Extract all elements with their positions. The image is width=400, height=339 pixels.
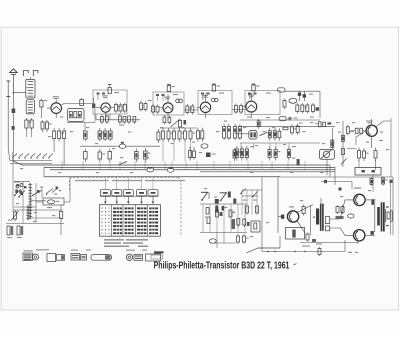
wire bbox=[240, 142, 320, 144]
wire bbox=[12, 93, 14, 152]
transistor T8 output bbox=[354, 194, 365, 205]
coil table arrows bbox=[104, 196, 106, 203]
wire collector T7 bbox=[298, 205, 313, 213]
connector K6 Zusatz label bbox=[126, 250, 135, 251]
parts right edge of IF bbox=[312, 103, 314, 105]
driver transformer winding bar bbox=[316, 209, 319, 225]
label T5 bbox=[248, 95, 254, 96]
wire bbox=[13, 92, 25, 94]
AF coupling vertical bbox=[331, 128, 333, 149]
resistor R2 bbox=[81, 98, 83, 100]
resistor R1 bbox=[40, 99, 42, 101]
driver secondary taps bbox=[325, 217, 329, 224]
transistor T5 IF amp bbox=[246, 101, 257, 112]
table caption line 3 bbox=[104, 246, 129, 247]
bandfilter label blob bbox=[278, 88, 286, 92]
label T4 bbox=[202, 95, 208, 96]
legend tag above title bbox=[154, 251, 164, 253]
coil table header rail bbox=[100, 196, 159, 198]
blob bottom right bbox=[371, 231, 374, 235]
electrolytic pair 2 bbox=[17, 226, 20, 235]
line IF mid bbox=[160, 127, 197, 129]
electrolytic pair 1 bbox=[7, 226, 10, 235]
preamp row wires bbox=[347, 148, 356, 150]
driver net lower wires bbox=[216, 233, 218, 249]
neutralising cap pair bbox=[176, 99, 180, 103]
collector feed wire bbox=[321, 181, 352, 183]
T1 filter can bbox=[68, 109, 85, 122]
IF decoupling parts bbox=[189, 147, 191, 151]
wire bbox=[96, 107, 101, 109]
bottom rail output bbox=[262, 251, 345, 253]
AGC line bbox=[240, 119, 320, 121]
svg-text:Philips-Philetta-Transistor B3: Philips-Philetta-Transistor B3D 22 T, 19… bbox=[154, 260, 290, 271]
lower resistor group A bbox=[236, 146, 238, 149]
connector K5 labels bbox=[86, 250, 91, 251]
trimmer C3 bbox=[12, 126, 15, 130]
loudspeaker bbox=[385, 209, 387, 223]
detector diode D1 bbox=[298, 93, 301, 96]
ferrite antenna coil L2 bbox=[26, 100, 34, 114]
elco box under T7 bbox=[286, 228, 305, 240]
connector K1 label bbox=[24, 250, 33, 251]
connector K2 label bbox=[36, 249, 49, 250]
switch diagonal on AF line bbox=[235, 133, 249, 135]
parts below IF can S1 bbox=[163, 115, 165, 117]
wire bbox=[47, 107, 51, 109]
tone line right bbox=[342, 121, 344, 167]
detector oval bbox=[289, 98, 297, 103]
label T1 bbox=[53, 96, 60, 97]
right vertical wires bbox=[390, 118, 392, 177]
wire emitter T7 bbox=[297, 221, 305, 233]
resistor row 2 bbox=[84, 149, 86, 152]
wire bbox=[95, 114, 97, 120]
resistor pair below S2 left bbox=[197, 128, 199, 131]
resistor row mixer left bbox=[84, 131, 88, 139]
right bus verticals bbox=[329, 165, 331, 177]
verticals from bus bbox=[61, 161, 63, 170]
IF can filter S2 bbox=[198, 91, 232, 115]
padder box bbox=[43, 198, 64, 205]
wire bbox=[240, 126, 335, 128]
resistor below bbox=[234, 148, 236, 150]
diode blob bbox=[92, 104, 95, 108]
transistor T4 IF amp bbox=[200, 102, 210, 112]
bias oval 2 bbox=[348, 214, 354, 218]
coil table riser wires bbox=[104, 178, 106, 190]
bus oval tag 1 bbox=[147, 167, 154, 172]
right edge wires bbox=[390, 183, 392, 235]
resistor R4 bbox=[167, 86, 170, 92]
speaker stubs bbox=[386, 206, 389, 207]
switch contacts osc right bbox=[47, 189, 54, 194]
connector K6 round plug bbox=[126, 254, 132, 260]
diode dark blob bbox=[206, 153, 211, 158]
detector RC parts bbox=[284, 99, 286, 101]
drop wires mid right bbox=[240, 143, 242, 149]
bus oval label 2 bbox=[201, 144, 208, 148]
lower resistor group B bbox=[269, 147, 271, 150]
switch contacts osc mid bbox=[33, 191, 42, 196]
transistor T2 mixer bbox=[101, 103, 110, 112]
switch diagonal bbox=[171, 120, 180, 128]
collector wires bbox=[365, 199, 375, 201]
driver transformer wire L bbox=[310, 205, 312, 235]
terminal hook A2 bbox=[33, 71, 38, 77]
IF can filter S3 bbox=[245, 91, 280, 115]
lower resistor C bbox=[288, 147, 290, 150]
transistor T9 output bbox=[354, 230, 365, 241]
bias oval bbox=[209, 239, 216, 243]
driver lower parts bbox=[237, 219, 240, 226]
cluster under mixer bbox=[96, 119, 140, 121]
switch arrow on bus bbox=[119, 162, 127, 165]
wire bbox=[84, 123, 86, 132]
volume control can bbox=[249, 131, 257, 140]
osc switch knot bbox=[16, 185, 19, 188]
IF area resistor row bbox=[162, 128, 164, 131]
labels near electrolytics bbox=[7, 237, 12, 238]
connector K3 bbox=[71, 250, 78, 251]
driver switch symbol 2 bbox=[220, 192, 227, 194]
detector diode D2 bbox=[303, 94, 306, 97]
coupling parts between S1 S2 bbox=[186, 104, 188, 106]
battery supply box bbox=[355, 168, 381, 176]
connector K2 box bbox=[47, 254, 56, 262]
mid right resistor rows bbox=[269, 128, 271, 131]
horizontal cap bbox=[283, 127, 288, 130]
coil table col1 dot grid bbox=[101, 207, 102, 208]
resistors under T1 bbox=[25, 118, 27, 120]
coil table header boxes bbox=[100, 190, 110, 196]
wire bbox=[285, 90, 320, 92]
transistor T3 IF amp bbox=[163, 103, 173, 113]
label T8 bbox=[354, 188, 361, 189]
parts left of T6 bbox=[355, 128, 358, 133]
base blob T7 bbox=[281, 215, 284, 219]
driver transformer core bars bbox=[320, 204, 322, 231]
label T3 bbox=[164, 97, 170, 98]
coil table column rules bbox=[111, 205, 113, 237]
wire bbox=[12, 152, 14, 212]
antenna ANT bbox=[10, 69, 18, 73]
table caption line 2 bbox=[104, 242, 121, 243]
wire bbox=[36, 201, 43, 203]
coil table frame bbox=[99, 205, 160, 237]
bus oval tag 2 bbox=[167, 168, 174, 173]
capacitor C1 bbox=[7, 81, 9, 97]
IF can filter S1 bbox=[153, 92, 184, 115]
wire down to driver bbox=[277, 177, 279, 233]
resistor R3 bbox=[108, 88, 111, 94]
bottom diagonal wire bbox=[246, 248, 280, 253]
labels AF preamp bbox=[350, 131, 354, 132]
phase splitter wires bbox=[330, 200, 354, 219]
ferrite antenna coil L1 bbox=[26, 79, 35, 98]
table caption line 1 bbox=[104, 239, 124, 240]
bus line 4 bbox=[200, 171, 335, 173]
bus line 1 bbox=[13, 152, 330, 165]
parts right of T2 box bbox=[140, 101, 142, 103]
bus line 2 bbox=[44, 166, 335, 168]
wire right section bbox=[280, 176, 393, 178]
tall electrolytics x222-242 bbox=[223, 124, 225, 127]
neutralising cap pair 2 bbox=[211, 98, 215, 102]
bus wire bbox=[80, 145, 160, 147]
dark resistor under T5 bbox=[258, 119, 260, 121]
resistor above bbox=[179, 119, 181, 121]
parts right bbox=[291, 124, 293, 127]
wire x70 bbox=[69, 177, 71, 202]
wire bbox=[53, 142, 55, 153]
bus line 3 bbox=[50, 169, 335, 171]
transistor T6 AF preamp bbox=[366, 125, 377, 136]
volume potentiometer bbox=[319, 149, 334, 159]
terminal hook A1 bbox=[24, 71, 29, 77]
output transformer winding L bar bbox=[377, 207, 380, 226]
driver emitter parts bbox=[307, 233, 309, 235]
wire bbox=[94, 104, 96, 123]
dashed chassis box bbox=[70, 177, 179, 190]
dark bits above bias bbox=[339, 188, 342, 191]
output transformer core bars bbox=[381, 202, 383, 231]
resistor R6 bbox=[252, 85, 255, 91]
IF row drop wires bbox=[162, 142, 164, 161]
trimmer pot bbox=[14, 210, 16, 212]
sprinkled value labels mid-right bbox=[247, 117, 251, 118]
top right small parts bbox=[371, 177, 373, 179]
oscillator coil box bbox=[93, 90, 127, 114]
oscillator coil hatched bbox=[29, 183, 31, 219]
caps beside T2 bbox=[115, 103, 117, 105]
resistor R5 bbox=[212, 85, 215, 91]
trimmer C2 bbox=[12, 109, 16, 114]
driver grid wires bbox=[200, 203, 247, 205]
connector K5 long plug bbox=[91, 255, 112, 261]
chassis note text row bbox=[75, 180, 109, 181]
driver resistors bbox=[216, 210, 219, 217]
wire left boundary output bbox=[261, 177, 263, 252]
coupling parts between S2 S3 bbox=[235, 104, 237, 106]
switch marks tone bbox=[241, 189, 246, 194]
tone resistors bbox=[358, 148, 360, 151]
footnote tick bbox=[294, 264, 297, 266]
dark parts under switches bbox=[215, 199, 219, 204]
feedback bottom wire bbox=[300, 242, 358, 244]
wave band switch row bbox=[13, 154, 17, 158]
preamp bias parts bbox=[318, 122, 321, 127]
chassis wire bbox=[44, 176, 280, 178]
driver mid parts bbox=[206, 208, 209, 215]
distribution wire bbox=[43, 167, 45, 177]
oscillator coil 2 bbox=[27, 206, 29, 221]
AGC filter blob bbox=[279, 117, 286, 121]
output transformer winding wire bbox=[374, 199, 376, 232]
T6 collector wire bbox=[376, 121, 391, 127]
connector K7 box bbox=[146, 254, 161, 261]
label T2 bbox=[102, 95, 108, 96]
resistor top right edge bbox=[371, 199, 374, 205]
blob right edge lower bbox=[297, 159, 300, 166]
label T6 bbox=[366, 121, 373, 122]
NTC box bbox=[251, 221, 260, 232]
bias resistors mid bbox=[337, 205, 339, 207]
transistor T7 driver bbox=[287, 211, 298, 222]
osc wires bbox=[14, 181, 30, 183]
driver switch symbol 1 bbox=[201, 191, 208, 193]
connector K1 plug bbox=[23, 253, 33, 261]
labels bottom output bbox=[348, 252, 352, 253]
resistors col x55 bbox=[53, 128, 55, 131]
resistor right of T7 bbox=[303, 205, 305, 207]
connector K2 plug bbox=[57, 255, 65, 261]
tone network left bbox=[242, 189, 262, 191]
transistor T1 bbox=[51, 103, 62, 114]
label T7 bbox=[289, 206, 294, 207]
scattered tiny value labels bbox=[44, 100, 47, 101]
bus oval label bbox=[119, 144, 126, 148]
coil table data cells bbox=[113, 207, 116, 209]
resistor R osc bbox=[60, 210, 62, 212]
connector K4 small bbox=[81, 255, 87, 261]
wire to T6 base bbox=[356, 131, 366, 137]
